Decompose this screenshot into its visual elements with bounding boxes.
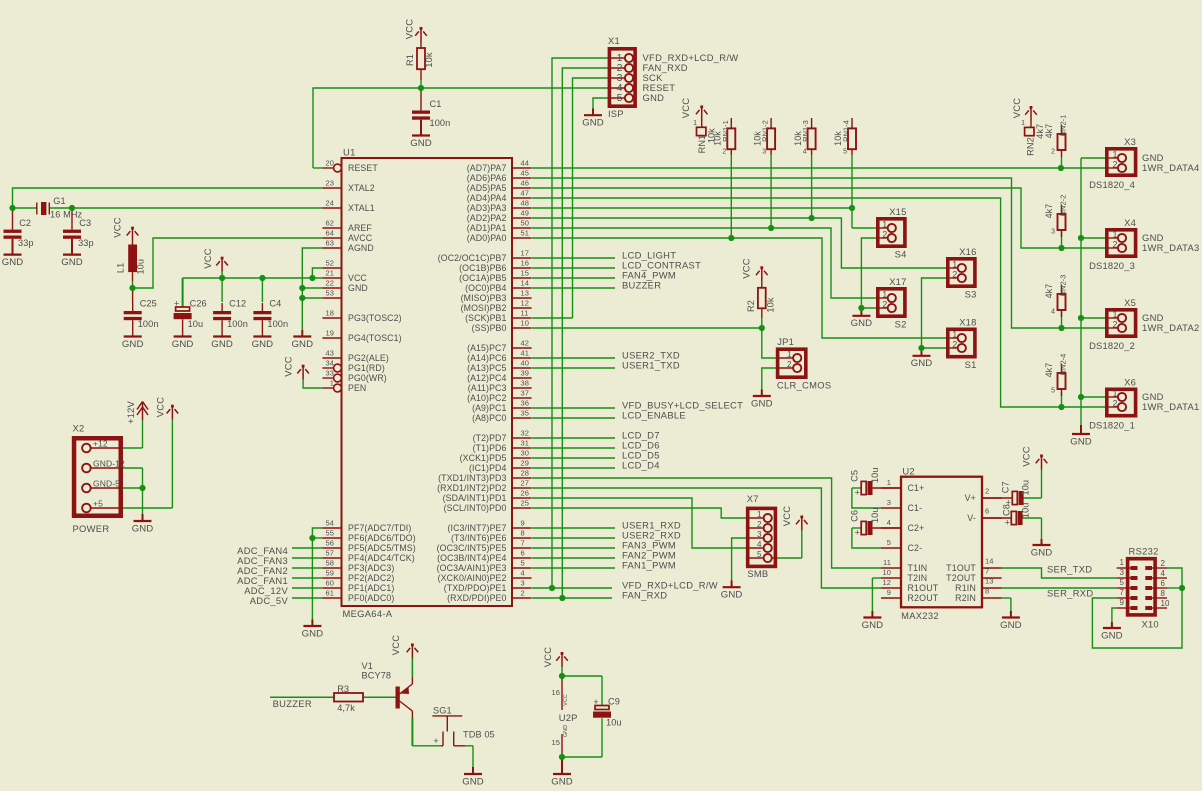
svg-text:XTAL1: XTAL1 (348, 203, 375, 213)
svg-text:GND: GND (410, 138, 432, 149)
svg-text:PF3(ADC3): PF3(ADC3) (348, 563, 394, 573)
svg-text:(AD0)PA0: (AD0)PA0 (467, 233, 507, 243)
svg-text:12: 12 (882, 578, 891, 587)
svg-text:PF4(ADC4/TCK): PF4(ADC4/TCK) (348, 553, 415, 563)
svg-text:24: 24 (325, 199, 334, 208)
svg-text:1: 1 (757, 510, 762, 519)
svg-text:5: 5 (521, 559, 525, 568)
svg-text:2: 2 (521, 589, 525, 598)
svg-text:R2: R2 (746, 300, 756, 312)
svg-text:GND: GND (911, 358, 933, 369)
svg-text:C1+: C1+ (908, 483, 925, 493)
svg-text:BUZZER: BUZZER (622, 280, 661, 291)
svg-text:62: 62 (325, 219, 334, 228)
svg-text:GND: GND (643, 92, 665, 103)
svg-text:14: 14 (521, 279, 530, 288)
svg-text:6: 6 (1161, 579, 1166, 588)
svg-text:GND: GND (211, 339, 233, 350)
svg-text:LCD_ENABLE: LCD_ENABLE (622, 410, 686, 421)
svg-text:13: 13 (521, 289, 530, 298)
svg-text:RN1-2: RN1-2 (761, 120, 770, 142)
svg-text:3: 3 (762, 149, 766, 156)
svg-text:FAN1_PWM: FAN1_PWM (622, 560, 676, 571)
svg-text:VCC: VCC (741, 258, 752, 278)
svg-text:10u: 10u (870, 507, 880, 523)
svg-text:2: 2 (952, 270, 957, 280)
svg-text:8: 8 (985, 587, 989, 596)
svg-text:C9: C9 (608, 697, 620, 707)
svg-text:VCC: VCC (282, 356, 293, 376)
svg-text:1: 1 (952, 330, 957, 340)
svg-text:2: 2 (985, 487, 989, 496)
svg-text:4,7k: 4,7k (337, 703, 355, 713)
svg-text:(TXD/PDO)PE1: (TXD/PDO)PE1 (444, 583, 507, 593)
svg-text:T2OUT: T2OUT (946, 573, 976, 583)
svg-text:AVCC: AVCC (348, 233, 373, 243)
svg-text:10u: 10u (1020, 480, 1030, 496)
svg-text:34: 34 (325, 359, 334, 368)
svg-text:(SCL/INT0)PD0: (SCL/INT0)PD0 (444, 503, 507, 513)
svg-text:(AD5)PA5: (AD5)PA5 (467, 183, 507, 193)
svg-text:PF7(ADC7/TDI): PF7(ADC7/TDI) (348, 523, 411, 533)
svg-text:+: + (593, 697, 598, 707)
svg-text:4: 4 (887, 518, 891, 527)
svg-text:5: 5 (887, 538, 891, 547)
svg-text:(SCK)PB1: (SCK)PB1 (465, 313, 506, 323)
svg-text:100n: 100n (430, 118, 451, 128)
svg-text:(AD4)PA4: (AD4)PA4 (467, 193, 507, 203)
svg-text:9: 9 (887, 588, 891, 597)
svg-text:3: 3 (521, 579, 525, 588)
svg-text:(T1)PD6: (T1)PD6 (473, 443, 507, 453)
svg-text:3: 3 (1051, 229, 1055, 236)
svg-text:V+: V+ (965, 493, 976, 503)
svg-text:2: 2 (882, 300, 887, 310)
svg-text:30: 30 (521, 449, 530, 458)
svg-text:FAN_RXD: FAN_RXD (622, 590, 667, 601)
svg-text:VCC: VCC (202, 248, 213, 268)
svg-text:10u: 10u (135, 259, 145, 275)
svg-text:45: 45 (521, 169, 530, 178)
svg-text:56: 56 (325, 539, 334, 548)
svg-text:+: + (433, 736, 438, 746)
svg-text:5: 5 (617, 92, 623, 104)
svg-text:4: 4 (1051, 309, 1055, 316)
svg-text:DS1820_4: DS1820_4 (1089, 179, 1135, 190)
svg-text:+: + (855, 488, 860, 498)
svg-text:GND: GND (851, 318, 873, 329)
svg-text:AREF: AREF (348, 223, 372, 233)
svg-text:10: 10 (1161, 599, 1170, 608)
svg-text:R1IN: R1IN (955, 583, 976, 593)
svg-text:1WR_DATA3: 1WR_DATA3 (1142, 242, 1200, 253)
svg-text:C7: C7 (1000, 481, 1010, 493)
svg-text:33: 33 (325, 369, 334, 378)
svg-text:(XCK1)PD5: (XCK1)PD5 (460, 453, 507, 463)
svg-text:VCC: VCC (348, 273, 367, 283)
svg-text:(OC0)PB4: (OC0)PB4 (465, 283, 506, 293)
svg-text:16: 16 (521, 259, 530, 268)
svg-text:C1: C1 (430, 99, 442, 109)
svg-text:GND: GND (122, 339, 144, 350)
svg-text:44: 44 (521, 159, 530, 168)
svg-text:1: 1 (887, 478, 891, 487)
svg-text:RN1-1: RN1-1 (721, 120, 730, 142)
svg-text:VCC: VCC (403, 19, 414, 39)
svg-text:(AD7)PA7: (AD7)PA7 (467, 163, 507, 173)
svg-text:29: 29 (521, 459, 530, 468)
svg-text:X3: X3 (1124, 136, 1136, 147)
svg-text:11: 11 (521, 309, 529, 318)
svg-text:CLR_CMOS: CLR_CMOS (777, 380, 832, 391)
svg-text:(A13)PC5: (A13)PC5 (467, 363, 506, 373)
svg-text:1WR_DATA4: 1WR_DATA4 (1142, 162, 1200, 173)
svg-text:(SS)PB0: (SS)PB0 (472, 323, 507, 333)
svg-text:RN2-4: RN2-4 (1059, 354, 1068, 376)
svg-text:48: 48 (521, 199, 530, 208)
svg-text:8: 8 (521, 529, 525, 538)
svg-text:GND: GND (582, 118, 604, 129)
svg-text:PF2(ADC2): PF2(ADC2) (348, 573, 394, 583)
svg-text:C4: C4 (269, 299, 281, 309)
svg-text:53: 53 (325, 289, 334, 298)
svg-text:14: 14 (985, 557, 994, 566)
svg-text:U2P: U2P (559, 712, 578, 723)
svg-text:SG1: SG1 (433, 706, 452, 716)
svg-text:2: 2 (787, 360, 792, 369)
svg-text:C2+: C2+ (908, 523, 925, 533)
svg-text:(A11)PC3: (A11)PC3 (468, 383, 507, 393)
svg-text:G1: G1 (53, 196, 65, 206)
svg-text:2: 2 (1161, 559, 1166, 568)
svg-text:4k7: 4k7 (1044, 284, 1054, 299)
svg-text:USER1_TXD: USER1_TXD (622, 360, 680, 371)
svg-text:(AD2)PA2: (AD2)PA2 (467, 213, 507, 223)
svg-text:GND: GND (252, 339, 274, 350)
svg-text:(OC1A)PB5: (OC1A)PB5 (459, 273, 506, 283)
svg-text:(A12)PC4: (A12)PC4 (467, 373, 506, 383)
svg-text:5: 5 (843, 149, 847, 156)
svg-text:ADC_5V: ADC_5V (250, 595, 289, 606)
svg-text:VCC: VCC (1020, 446, 1031, 466)
svg-text:38: 38 (521, 379, 530, 388)
svg-text:RN2: RN2 (1026, 137, 1036, 156)
svg-text:2: 2 (1112, 160, 1117, 170)
svg-text:4: 4 (757, 540, 762, 549)
svg-text:VCC: VCC (1011, 98, 1022, 118)
svg-text:+: + (174, 299, 179, 309)
svg-text:GND-5: GND-5 (93, 479, 120, 489)
svg-text:52: 52 (325, 259, 334, 268)
svg-text:SER_RXD: SER_RXD (1047, 588, 1093, 599)
svg-text:100n: 100n (227, 319, 248, 329)
svg-text:R1OUT: R1OUT (908, 583, 939, 593)
svg-text:XTAL2: XTAL2 (348, 183, 375, 193)
svg-text:(RXD1/INT2)PD2: (RXD1/INT2)PD2 (437, 483, 506, 493)
svg-text:100n: 100n (138, 319, 159, 329)
svg-text:+5: +5 (93, 499, 103, 509)
svg-text:GND: GND (751, 398, 773, 409)
svg-text:51: 51 (521, 229, 530, 238)
svg-text:GND: GND (348, 283, 368, 293)
svg-text:1: 1 (1112, 389, 1117, 399)
svg-text:2: 2 (757, 520, 762, 529)
svg-text:(A14)PC6: (A14)PC6 (467, 353, 506, 363)
svg-text:V-: V- (967, 513, 976, 523)
svg-text:PG3(TOSC2): PG3(TOSC2) (348, 313, 402, 323)
svg-text:U1: U1 (343, 147, 356, 158)
svg-text:L1: L1 (116, 263, 126, 273)
svg-text:R3: R3 (337, 684, 349, 694)
svg-text:31: 31 (521, 439, 530, 448)
svg-text:28: 28 (521, 469, 530, 478)
svg-text:1: 1 (1120, 558, 1125, 567)
svg-text:BCY78: BCY78 (362, 671, 392, 681)
svg-text:21: 21 (325, 269, 334, 278)
svg-text:C5: C5 (850, 470, 860, 482)
svg-text:X2: X2 (73, 423, 85, 434)
svg-text:PEN: PEN (348, 383, 366, 393)
svg-text:GND: GND (61, 257, 83, 268)
svg-text:(OC2/OC1C)PB7: (OC2/OC1C)PB7 (438, 253, 507, 263)
svg-text:(MOSI)PB2: (MOSI)PB2 (461, 303, 507, 313)
svg-text:GND: GND (1000, 620, 1022, 631)
svg-text:R2IN: R2IN (955, 593, 976, 603)
svg-text:GND: GND (291, 339, 313, 350)
svg-text:8: 8 (1161, 589, 1166, 598)
svg-text:PG1(RD): PG1(RD) (348, 363, 385, 373)
svg-text:17: 17 (521, 249, 530, 258)
svg-text:4: 4 (521, 569, 525, 578)
svg-text:S3: S3 (965, 289, 977, 300)
svg-text:2: 2 (882, 230, 887, 240)
svg-text:100n: 100n (267, 319, 288, 329)
svg-text:(A15)PC7: (A15)PC7 (467, 343, 506, 353)
svg-text:VCC: VCC (390, 635, 401, 655)
svg-text:(OC3B/INT4)PE4: (OC3B/INT4)PE4 (437, 553, 506, 563)
svg-text:RN2-2: RN2-2 (1059, 195, 1068, 217)
svg-text:(SDA/INT1)PD1: (SDA/INT1)PD1 (443, 493, 507, 503)
svg-text:16 MHz: 16 MHz (50, 210, 83, 220)
svg-text:10u: 10u (188, 319, 204, 329)
svg-text:5: 5 (757, 550, 762, 559)
svg-text:61: 61 (325, 589, 334, 598)
svg-text:MAX232: MAX232 (901, 610, 939, 621)
svg-text:X1: X1 (608, 35, 620, 46)
svg-text:(AD6)PA6: (AD6)PA6 (467, 173, 507, 183)
svg-text:PF1(ADC1): PF1(ADC1) (348, 583, 394, 593)
svg-text:46: 46 (521, 179, 530, 188)
svg-text:12: 12 (521, 299, 530, 308)
svg-text:4: 4 (803, 149, 807, 156)
svg-text:U2: U2 (902, 466, 914, 477)
svg-text:20: 20 (325, 159, 334, 168)
svg-text:47: 47 (521, 189, 530, 198)
svg-text:10u: 10u (606, 718, 622, 728)
svg-text:19: 19 (325, 329, 334, 338)
svg-text:10k: 10k (424, 52, 434, 67)
svg-text:PG0(WR): PG0(WR) (348, 373, 387, 383)
svg-text:GND: GND (172, 339, 194, 350)
svg-text:36: 36 (521, 399, 530, 408)
svg-text:(AD1)PA1: (AD1)PA1 (467, 223, 507, 233)
svg-text:1: 1 (330, 379, 334, 388)
svg-text:C2-: C2- (908, 543, 923, 553)
svg-text:GND: GND (563, 725, 569, 737)
svg-text:T1IN: T1IN (908, 563, 928, 573)
svg-text:9: 9 (521, 519, 525, 528)
svg-text:PG4(TOSC1): PG4(TOSC1) (348, 333, 402, 343)
svg-text:1: 1 (1112, 310, 1117, 320)
svg-text:(IC3/INT7)PE7: (IC3/INT7)PE7 (448, 523, 507, 533)
svg-text:(T2)PD7: (T2)PD7 (473, 433, 507, 443)
svg-text:GND: GND (462, 776, 484, 787)
svg-text:4k7: 4k7 (1044, 204, 1054, 219)
svg-text:C1-: C1- (908, 503, 923, 513)
svg-text:GND-12: GND-12 (93, 459, 125, 469)
svg-text:VCC: VCC (112, 217, 123, 237)
svg-text:X7: X7 (747, 493, 759, 504)
svg-text:X17: X17 (889, 276, 906, 287)
svg-text:35: 35 (521, 409, 530, 418)
svg-text:1: 1 (693, 120, 697, 127)
svg-text:26: 26 (521, 489, 530, 498)
svg-text:(A9)PC1: (A9)PC1 (472, 403, 506, 413)
svg-text:RN2-1: RN2-1 (1059, 115, 1068, 137)
svg-text:10: 10 (882, 568, 891, 577)
svg-text:VCC: VCC (563, 694, 569, 706)
svg-text:(T3/INT6)PE6: (T3/INT6)PE6 (451, 533, 506, 543)
svg-text:54: 54 (325, 519, 334, 528)
svg-text:RESET: RESET (348, 163, 378, 173)
svg-text:+12V: +12V (125, 400, 136, 424)
svg-text:2: 2 (1051, 149, 1055, 156)
svg-text:10u: 10u (1020, 502, 1030, 518)
svg-text:63: 63 (325, 239, 334, 248)
svg-text:3: 3 (887, 498, 891, 507)
svg-text:JP1: JP1 (777, 336, 794, 347)
svg-text:1: 1 (952, 260, 957, 270)
svg-text:5: 5 (1120, 578, 1125, 587)
svg-text:(RXD/PDI)PE0: (RXD/PDI)PE0 (447, 593, 506, 603)
svg-text:T1OUT: T1OUT (946, 563, 976, 573)
svg-text:(A10)PC2: (A10)PC2 (467, 393, 506, 403)
svg-text:4k7: 4k7 (1044, 124, 1054, 139)
svg-text:40: 40 (521, 359, 530, 368)
svg-text:2: 2 (1112, 399, 1117, 409)
svg-text:C25: C25 (140, 299, 157, 309)
svg-text:22: 22 (325, 279, 334, 288)
svg-text:MEGA64-A: MEGA64-A (343, 608, 393, 619)
svg-text:S2: S2 (895, 319, 907, 330)
svg-text:SER_TXD: SER_TXD (1047, 564, 1092, 575)
svg-text:13: 13 (985, 577, 994, 586)
svg-text:C8: C8 (1001, 504, 1011, 516)
svg-text:VCC: VCC (542, 647, 553, 667)
svg-text:1WR_DATA1: 1WR_DATA1 (1142, 401, 1200, 412)
svg-text:V1: V1 (362, 661, 373, 671)
svg-text:1: 1 (882, 220, 887, 230)
svg-text:PG2(ALE): PG2(ALE) (348, 353, 389, 363)
svg-text:GND: GND (721, 590, 743, 601)
svg-text:(OC3C/INT5)PE5: (OC3C/INT5)PE5 (437, 543, 507, 553)
svg-text:GND: GND (132, 523, 154, 534)
svg-text:10k: 10k (766, 297, 776, 312)
svg-text:+12: +12 (93, 439, 108, 449)
svg-text:X10: X10 (1142, 619, 1159, 630)
svg-text:(IC1)PD4: (IC1)PD4 (469, 463, 506, 473)
svg-text:GND: GND (1070, 436, 1092, 447)
svg-text:DS1820_1: DS1820_1 (1089, 420, 1135, 431)
svg-text:3: 3 (757, 530, 762, 539)
svg-text:S1: S1 (965, 359, 977, 370)
svg-text:60: 60 (325, 579, 334, 588)
svg-text:49: 49 (521, 209, 530, 218)
svg-text:5: 5 (1051, 388, 1055, 395)
svg-text:PF5(ADC5/TMS): PF5(ADC5/TMS) (348, 543, 416, 553)
svg-text:DS1820_2: DS1820_2 (1089, 340, 1135, 351)
svg-text:25: 25 (521, 499, 530, 508)
svg-text:RN1-4: RN1-4 (841, 120, 850, 142)
svg-text:2: 2 (1112, 240, 1117, 250)
svg-text:2: 2 (952, 340, 957, 350)
svg-text:(AD3)PA3: (AD3)PA3 (467, 203, 507, 213)
svg-text:PF0(ADC0): PF0(ADC0) (348, 593, 394, 603)
svg-text:9: 9 (1120, 598, 1125, 607)
svg-text:X6: X6 (1124, 376, 1136, 387)
svg-text:X18: X18 (959, 317, 976, 328)
svg-text:(OC1B)PB6: (OC1B)PB6 (459, 263, 506, 273)
svg-text:32: 32 (521, 429, 530, 438)
svg-text:33p: 33p (78, 238, 94, 248)
svg-text:59: 59 (325, 569, 334, 578)
svg-text:GND: GND (551, 776, 573, 787)
svg-text:7: 7 (1120, 588, 1125, 597)
svg-text:6: 6 (521, 549, 525, 558)
svg-text:23: 23 (325, 179, 334, 188)
svg-text:7: 7 (521, 539, 525, 548)
svg-text:X4: X4 (1124, 217, 1136, 228)
svg-text:50: 50 (521, 219, 530, 228)
svg-text:RN2-3: RN2-3 (1059, 275, 1068, 297)
svg-text:TDB 05: TDB 05 (463, 730, 495, 740)
svg-text:27: 27 (521, 479, 530, 488)
svg-text:2: 2 (1112, 320, 1117, 330)
svg-text:37: 37 (521, 389, 530, 398)
svg-text:X5: X5 (1124, 297, 1136, 308)
svg-text:55: 55 (325, 529, 334, 538)
svg-text:GND: GND (1031, 547, 1053, 558)
svg-text:16: 16 (551, 688, 560, 697)
svg-text:ISP: ISP (608, 108, 624, 119)
svg-text:S4: S4 (895, 249, 907, 260)
svg-text:10: 10 (521, 319, 530, 328)
svg-text:1: 1 (787, 350, 792, 359)
svg-text:C26: C26 (190, 299, 207, 309)
svg-text:7: 7 (985, 567, 989, 576)
svg-text:1: 1 (1112, 150, 1117, 160)
svg-text:T2IN: T2IN (908, 573, 928, 583)
svg-text:(TXD1/INT3)PD3: (TXD1/INT3)PD3 (438, 473, 506, 483)
svg-text:C12: C12 (229, 299, 246, 309)
svg-text:1: 1 (882, 290, 887, 300)
svg-text:6: 6 (985, 507, 989, 516)
svg-text:10u: 10u (870, 467, 880, 483)
svg-text:43: 43 (325, 349, 334, 358)
svg-text:R1: R1 (405, 54, 415, 66)
svg-text:41: 41 (521, 349, 530, 358)
svg-text:VCC: VCC (154, 397, 165, 417)
